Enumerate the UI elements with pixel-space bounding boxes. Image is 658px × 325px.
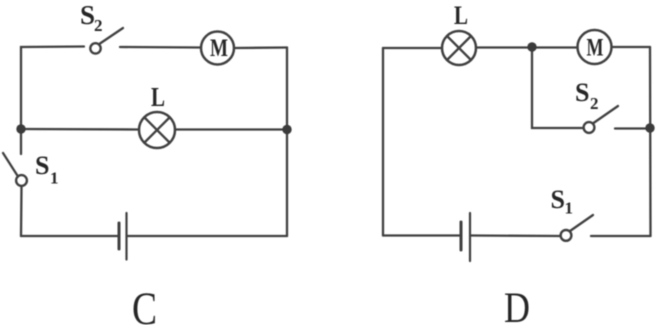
svg-text:L: L <box>454 1 468 30</box>
svg-text:C: C <box>132 283 157 325</box>
svg-text:S: S <box>80 0 95 30</box>
svg-text:M: M <box>210 33 228 62</box>
svg-text:1: 1 <box>565 199 574 218</box>
svg-text:S: S <box>35 151 49 180</box>
svg-text:1: 1 <box>50 169 59 188</box>
svg-text:2: 2 <box>94 16 103 35</box>
svg-text:S: S <box>551 185 565 214</box>
svg-text:2: 2 <box>590 94 599 113</box>
svg-text:L: L <box>151 82 165 112</box>
svg-text:M: M <box>587 33 604 62</box>
svg-text:S: S <box>575 78 589 107</box>
svg-text:D: D <box>504 285 530 325</box>
